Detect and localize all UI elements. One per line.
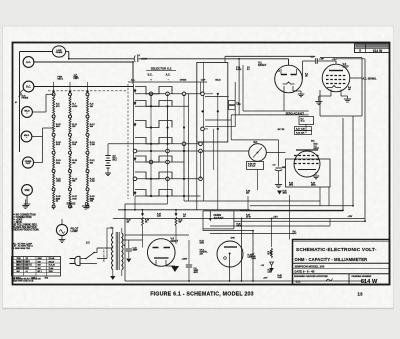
svg-text:RECT.: RECT. [58, 79, 64, 81]
svg-text:660: 660 [38, 268, 41, 270]
svg-text:D.C.: D.C. [26, 86, 31, 89]
svg-text:56 W: 56 W [268, 254, 273, 256]
svg-text:2.2M: 2.2M [252, 258, 257, 260]
svg-text:614 W: 614 W [361, 279, 378, 285]
svg-text:2803: 2803 [289, 184, 293, 186]
svg-text:9M: 9M [72, 162, 75, 164]
svg-text:614 W: 614 W [373, 49, 382, 53]
svg-text:5: 5 [13, 261, 14, 263]
svg-text:+180V: +180V [182, 258, 188, 260]
svg-text:470K: 470K [231, 237, 236, 240]
svg-text:1.5W: 1.5W [237, 104, 241, 106]
svg-text:2.2K: 2.2K [157, 216, 162, 218]
svg-text:5.3: 5.3 [247, 69, 249, 71]
svg-text:6SJ7: 6SJ7 [343, 65, 350, 69]
svg-text:13: 13 [357, 292, 363, 297]
svg-text:10 Ω: 10 Ω [301, 120, 306, 123]
svg-text:SIMPSON MODEL 203: SIMPSON MODEL 203 [295, 265, 325, 269]
svg-text:WHEN IN PRODUCTION:: WHEN IN PRODUCTION: [12, 229, 40, 232]
svg-text:6X5GT: 6X5GT [258, 63, 267, 67]
svg-text:1800: 1800 [38, 258, 42, 260]
svg-text:450V: 450V [194, 271, 199, 274]
svg-text:71-46: 71-46 [49, 267, 54, 270]
svg-text:#100: #100 [72, 106, 78, 108]
svg-text:OHMS: OHMS [56, 52, 63, 54]
svg-text:7500: 7500 [49, 271, 53, 273]
svg-text:9M: 9M [90, 106, 93, 108]
svg-text:280Ω: 280Ω [311, 184, 316, 186]
svg-text:C-5 14.2: C-5 14.2 [248, 165, 255, 168]
svg-text:OHM - CAPACITY - MILLIAMMETE: OHM - CAPACITY - MILLIAMMETER [295, 257, 368, 262]
svg-text:×1: ×1 [26, 270, 28, 273]
svg-text:220: 220 [246, 193, 249, 195]
svg-text:RANGE: RANGE [67, 203, 76, 206]
svg-text:2.5M: 2.5M [268, 272, 273, 274]
svg-text:75Ω: 75Ω [45, 278, 49, 280]
svg-text:M.1: M.1 [254, 141, 259, 144]
svg-text:660: 660 [17, 271, 20, 273]
svg-text:2803: 2803 [283, 193, 287, 195]
svg-text:6.3: 6.3 [278, 71, 280, 73]
svg-text:#D 1800 WAS 75Ω: #D 1800 WAS 75Ω [12, 247, 31, 250]
svg-text:MF 1: MF 1 [38, 271, 42, 273]
svg-text:D.C.: D.C. [148, 73, 153, 76]
svg-text:8: 8 [13, 271, 14, 273]
svg-text:C.9: C.9 [273, 165, 276, 167]
svg-text:+75V: +75V [273, 217, 279, 219]
svg-text:200-47: 200-47 [49, 260, 55, 263]
svg-text:R-32 15K: R-32 15K [296, 132, 305, 134]
svg-text:CAP: CAP [201, 78, 206, 81]
svg-text:3.3K: 3.3K [293, 233, 298, 235]
svg-text:1.2Ω: 1.2Ω [90, 181, 95, 183]
svg-text:8M: 8M [90, 162, 93, 164]
svg-text:DESIGNED CHECKED APPROVED: DESIGNED CHECKED APPROVED [294, 275, 328, 278]
svg-text:920: 920 [38, 261, 41, 263]
svg-text:52Ω: 52Ω [56, 162, 60, 164]
svg-text:R-2 15: R-2 15 [236, 69, 241, 71]
svg-text:SCHEMATIC-ELECTRONIC VOLT-: SCHEMATIC-ELECTRONIC VOLT- [296, 247, 377, 253]
svg-text:170-45: 170-45 [49, 257, 55, 260]
svg-text:8M: 8M [72, 181, 75, 183]
svg-text:9.1M: 9.1M [278, 277, 283, 279]
svg-text:9M: 9M [90, 126, 93, 128]
svg-text:5W: 5W [179, 222, 182, 224]
svg-text:ADJUST: ADJUST [214, 217, 225, 220]
svg-text:RABY: RABY [74, 77, 80, 80]
svg-text:OHMS: OHMS [180, 80, 187, 82]
svg-text:A.C.: A.C. [166, 73, 171, 76]
svg-text:16 W: 16 W [246, 217, 251, 219]
svg-text:FIGURE 6.1 - SCHEMATIC, MODEL: FIGURE 6.1 - SCHEMATIC, MODEL 203 [150, 292, 254, 298]
svg-text:DATE 9 - 8 - 45: DATE 9 - 8 - 45 [295, 270, 315, 274]
svg-text:1B 7.5K: 1B 7.5K [278, 129, 285, 131]
svg-text:MILS: MILS [215, 79, 221, 81]
svg-text:DRAWING NUMBER: DRAWING NUMBER [352, 275, 372, 278]
svg-text:1M: 1M [127, 222, 130, 224]
svg-text:.84Ω: .84Ω [56, 180, 61, 183]
svg-text:840: 840 [38, 264, 41, 267]
svg-text:105-125 V. 60~: 105-125 V. 60~ [104, 248, 106, 262]
svg-text:90M: 90M [72, 198, 76, 200]
svg-text:PROBE: PROBE [22, 97, 29, 99]
svg-text:6: 6 [13, 265, 14, 267]
svg-text:+10V: +10V [263, 278, 268, 280]
svg-text:7500: 7500 [17, 258, 21, 260]
svg-text:LAMP: LAMP [71, 229, 79, 233]
svg-text:GND: GND [24, 190, 29, 192]
svg-text:7: 7 [13, 268, 14, 270]
svg-text:71.5-46: 71.5-46 [49, 264, 55, 267]
svg-text:9M: 9M [72, 126, 75, 128]
svg-text:CAP: CAP [26, 162, 31, 165]
svg-text:+75V: +75V [348, 216, 353, 218]
svg-text:1.2M: 1.2M [90, 144, 95, 146]
svg-text:6X5GT: 6X5GT [171, 240, 179, 243]
svg-text:SELECTOR S.2: SELECTOR S.2 [151, 67, 172, 71]
svg-text:A.C.: A.C. [26, 61, 31, 64]
svg-text:YEAR PART 1943 G.T.B.: YEAR PART 1943 G.T.B. [12, 280, 35, 283]
